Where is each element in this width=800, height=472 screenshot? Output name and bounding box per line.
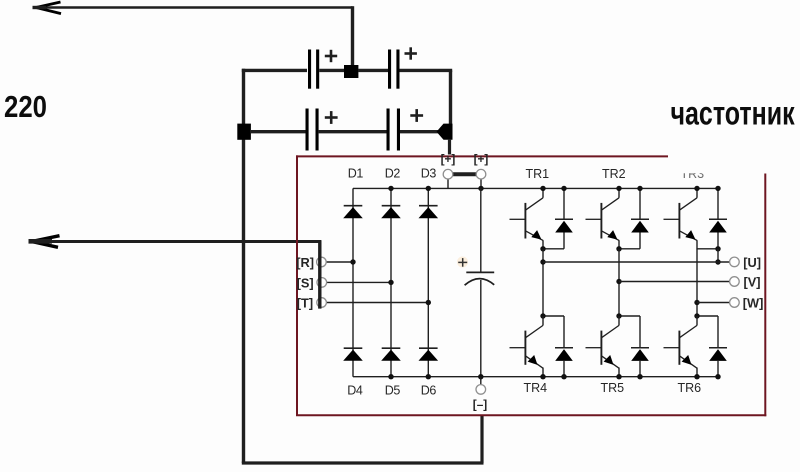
frequency converter box bottom border [296,414,766,416]
svg-text:[T]: [T] [297,296,313,311]
node junction [694,313,699,318]
capacitor C3 [306,109,309,151]
node DC+ junction [478,186,483,191]
svg-text:[+]: [+] [441,152,456,166]
transistor TR1 [542,188,544,197]
capacitor C5 [466,271,494,273]
node bus junction TR4 [540,374,545,379]
capacitor C1 [308,50,311,89]
svg-text:D4: D4 [347,384,363,398]
wire [480,416,483,464]
wire [242,69,307,72]
terminal W [730,298,740,308]
wire [449,70,452,124]
svg-text:[R]: [R] [296,255,314,270]
diode D5 [382,347,401,349]
wire [250,130,307,133]
node bus junction TR6 [694,374,699,379]
terminal S [317,278,327,288]
svg-text:[U]: [U] [743,255,761,270]
node emitter junction [616,246,621,251]
capacitor C4 [387,109,390,151]
node S junction [388,280,393,285]
wire [480,188,482,271]
node phase tap 3 [694,300,699,305]
node emitter junction [715,246,720,251]
wire [318,240,321,308]
capacitor C5 plus [457,257,468,268]
wire rectifier column 1 [352,188,354,376]
transistor TR5 [618,316,620,325]
terminal +1 [443,169,453,179]
node junction [388,374,393,379]
node junction [540,313,545,318]
svg-text:D6: D6 [421,384,437,398]
terminal V [730,277,740,287]
transistor TR4 [542,316,544,325]
diode freewheel TR4 [563,316,565,348]
wire [319,69,345,72]
terminal T [317,298,327,308]
diode D2 [382,205,401,207]
wire phase column 2 [618,249,620,316]
diode freewheel TR5 [639,316,641,348]
node bus junction TR3 [694,186,699,191]
junction [437,124,453,140]
transistor TR3 [696,188,698,197]
arrow [36,2,61,14]
diode D3 [419,205,438,207]
label 220 [4,90,47,123]
svg-text:[W]: [W] [743,296,764,311]
svg-text:220: 220 [4,90,47,123]
wire [242,69,245,463]
terminal U [730,257,740,267]
node DC- junction [478,374,483,379]
wire [697,315,718,317]
svg-text:[V]: [V] [744,275,761,290]
diode D1 [344,205,363,207]
frequency converter box left border [296,155,298,415]
wire [37,6,353,9]
node junction [388,186,393,191]
wire [480,174,482,188]
svg-text:TR4: TR4 [524,381,548,395]
node phase tap 1 [540,259,545,264]
wire phase V [619,281,730,283]
node junction [616,313,621,318]
diode freewheel TR3 [717,188,719,219]
wire phase column 3 [696,249,698,316]
transistor TR2 [618,188,620,197]
wire phase W [697,302,730,304]
wire [448,139,451,155]
junction [237,124,251,140]
node emitter junction [540,246,545,251]
wire [619,315,640,317]
frequency converter box right border [764,174,766,417]
wire [358,69,389,72]
capacitor C2 [388,50,391,89]
wire rectifier column 2 [390,188,392,376]
node bus junction TR1 [540,186,545,191]
node bus junction TR5 [616,374,621,379]
wire phase U [543,261,730,263]
svg-text:D3: D3 [421,166,437,180]
wire phase column 1 [542,249,544,316]
wire [480,377,482,385]
diode D6 [419,347,438,349]
wire [326,261,353,263]
svg-text:TR5: TR5 [601,381,625,395]
wire [543,315,564,317]
terminal R [317,257,327,267]
node junction [715,259,720,264]
svg-text:TR1: TR1 [526,167,550,181]
wire [480,280,482,377]
wire [242,461,484,464]
wire [717,249,719,262]
svg-text:D1: D1 [348,166,364,180]
top DC bus [353,187,718,189]
terminal - [476,385,486,395]
wire [326,302,428,304]
arrow [32,236,60,248]
wire [326,281,391,283]
node T junction [426,300,431,305]
diode freewheel TR6 [717,316,719,348]
wire [319,130,388,133]
wire [543,248,564,250]
wire [400,130,439,133]
wire [400,69,453,72]
wire DC+ link [453,172,477,176]
wire [351,6,354,66]
label частотник [671,95,795,132]
svg-text:частотник: частотник [671,95,795,132]
node R junction [350,259,355,264]
label TR3 remnant [681,167,705,181]
transistor TR6 [696,316,698,325]
junction [344,65,358,78]
svg-text:TR2: TR2 [602,167,626,181]
diode freewheel TR1 [563,188,565,219]
wire [697,248,718,250]
svg-text:[S]: [S] [297,275,314,290]
bottom DC bus [353,376,718,378]
wire [447,174,449,188]
node bus junction TR2 [616,186,621,191]
svg-text:TR6: TR6 [678,381,702,395]
wire [619,248,640,250]
node junction [426,186,431,191]
terminal +2 [476,169,486,179]
node phase tap 2 [616,279,621,284]
svg-text:D5: D5 [385,384,401,398]
diode freewheel TR2 [639,188,641,219]
svg-text:[+]: [+] [474,152,489,166]
diode D4 [344,347,363,349]
frequency converter box top border [296,155,668,157]
wire rectifier column 3 [427,188,429,376]
svg-text:D2: D2 [385,166,401,180]
node junction [426,374,431,379]
svg-text:[–]: [–] [473,398,487,412]
wire [31,240,321,243]
